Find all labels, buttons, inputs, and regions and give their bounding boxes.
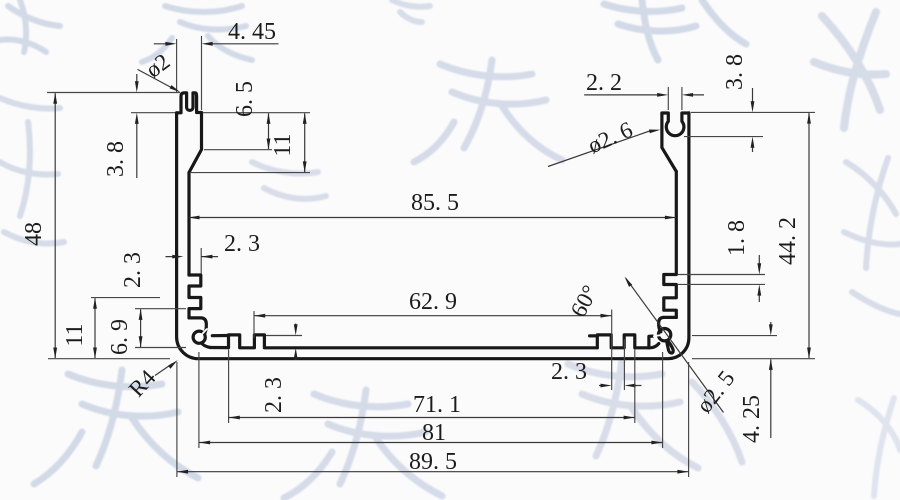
left boss hook: [189, 318, 206, 333]
right boss keyhole teardrop: [667, 341, 674, 354]
dimension 11 bottom-left: [62, 298, 160, 359]
left wall inner: step, bump with screw slot, ledge, taper: [177, 93, 202, 275]
svg-text:2. 2: 2. 2: [586, 70, 622, 96]
svg-text:6. 5: 6. 5: [232, 81, 258, 117]
dimension 60 degrees: [566, 277, 724, 413]
left comb flange: [212, 334, 228, 337]
svg-text:2. 3: 2. 3: [224, 231, 260, 257]
dimension 85.5: [188, 190, 676, 219]
svg-text:ø2: ø2: [141, 49, 174, 83]
dimension 2.3 wall + 2.3 rib: [120, 231, 260, 288]
dimension 62.9: [254, 289, 612, 390]
svg-text:1. 8: 1. 8: [724, 220, 750, 256]
dimension 89.5: [177, 362, 689, 477]
left wall ribs: [189, 275, 201, 318]
dimension 6.9: [107, 309, 186, 355]
dimension 1.8: [678, 220, 765, 302]
dimension 81: [199, 352, 663, 448]
dimension Ø2.6 leader: [548, 117, 661, 167]
svg-text:62. 9: 62. 9: [409, 289, 457, 315]
right wall taper and screw channel: [662, 113, 689, 172]
dimension 71.1: [229, 350, 635, 424]
svg-text:2. 3: 2. 3: [261, 377, 287, 413]
profile outline: [177, 93, 689, 359]
right comb teeth: [597, 335, 652, 348]
svg-text:48: 48: [21, 222, 47, 246]
dimension 48 left: [21, 93, 170, 359]
dimension 3.8 top-right: [684, 54, 815, 152]
svg-text:3. 8: 3. 8: [103, 141, 129, 177]
right boss hook: [659, 317, 677, 331]
svg-text:6. 9: 6. 9: [107, 319, 133, 355]
left boss floor merge: [202, 343, 211, 348]
svg-text:85. 5: 85. 5: [411, 190, 459, 216]
svg-text:11: 11: [62, 323, 88, 346]
svg-text:4. 45: 4. 45: [228, 19, 276, 45]
svg-text:3. 8: 3. 8: [722, 54, 748, 90]
right wall ribs: [664, 172, 677, 318]
dimension 6.5: [203, 81, 310, 150]
dimension 3.8 left: [47, 74, 180, 178]
right comb flange: [590, 334, 598, 337]
svg-text:2. 3: 2. 3: [120, 252, 146, 288]
dimension R4 leader: [124, 360, 178, 402]
svg-text:2. 3: 2. 3: [551, 359, 587, 385]
dimension Ø2.5 leader: [692, 366, 740, 418]
dimension 2.3 bottom-left (tooth height): [261, 324, 302, 414]
left boss ring: [193, 331, 205, 343]
svg-text:R4: R4: [124, 365, 161, 402]
svg-text:89. 5: 89. 5: [409, 449, 457, 475]
dimension 2.3 bottom-right: [551, 339, 642, 390]
svg-text:44. 2: 44. 2: [775, 217, 801, 265]
svg-text:ø2. 5: ø2. 5: [692, 366, 740, 418]
floor with left comb teeth: [211, 335, 598, 348]
dimension Ø2 leader: [138, 49, 181, 93]
dimension 44.2: [692, 112, 815, 358]
dimension 11 top: [191, 113, 310, 173]
outer shell: [177, 113, 689, 359]
svg-text:71. 1: 71. 1: [413, 392, 461, 418]
svg-text:4. 25: 4. 25: [739, 395, 765, 443]
svg-text:11: 11: [270, 133, 296, 156]
dimension 4.25: [692, 322, 777, 443]
dimension 4.45 top: [154, 19, 279, 110]
dimension 2.2 top-right: [584, 70, 704, 110]
right boss ring: [658, 329, 670, 341]
svg-text:81: 81: [422, 420, 446, 446]
svg-text:ø2. 6: ø2. 6: [584, 117, 636, 159]
